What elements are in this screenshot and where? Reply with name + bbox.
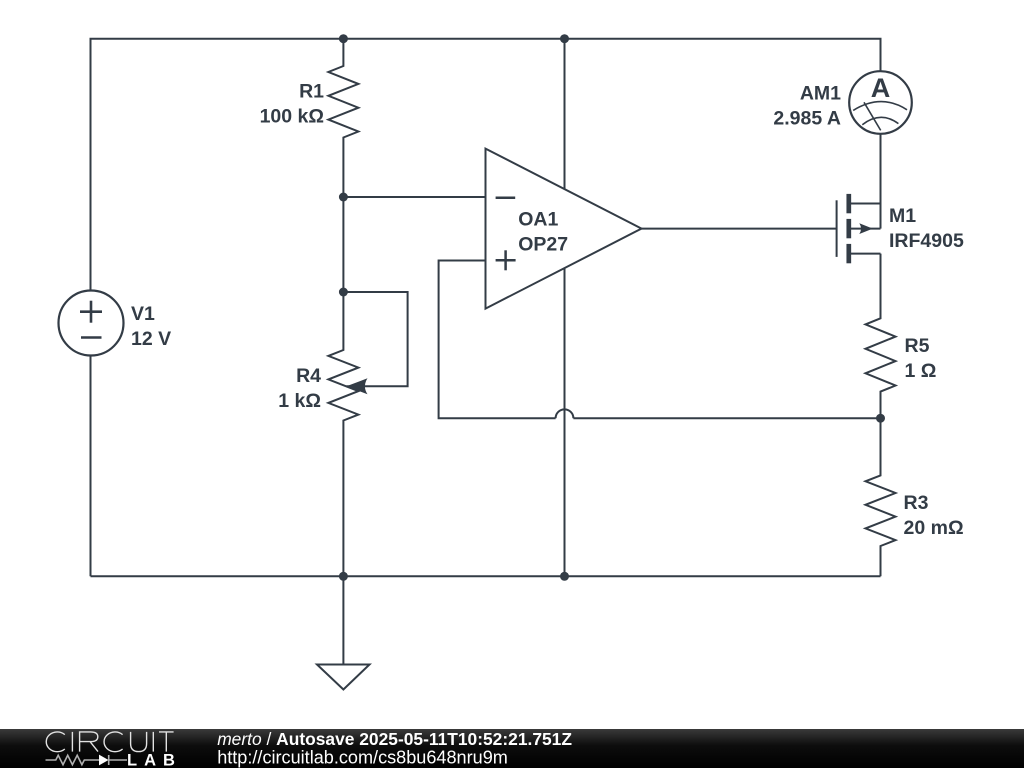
svg-text:AM1: AM1 (800, 83, 841, 105)
svg-text:LAB: LAB (127, 752, 182, 768)
svg-text:20 mΩ: 20 mΩ (904, 517, 964, 539)
node dot bottom rail (560, 572, 569, 581)
ammeter AM1 (849, 71, 912, 134)
ground (342, 576, 344, 664)
potentiometer R4 (328, 292, 358, 576)
svg-text:M1: M1 (889, 205, 916, 227)
svg-text:http://circuitlab.com/cs8bu648: http://circuitlab.com/cs8bu648nru9m (217, 748, 508, 768)
wire ammeter to mosfet source (880, 134, 882, 229)
node dot top rail (560, 34, 569, 43)
wire hop over supply rail (556, 409, 574, 418)
svg-text:R3: R3 (904, 492, 929, 514)
svg-text:R1: R1 (299, 80, 324, 102)
svg-text:12 V: 12 V (131, 328, 171, 350)
svg-text:R4: R4 (296, 365, 321, 387)
svg-text:A: A (871, 73, 891, 103)
wire R1 to R4 (342, 197, 344, 292)
node dot bottom R4 (339, 572, 348, 581)
wire + input feedback (439, 261, 556, 419)
voltage source V1 (59, 291, 124, 356)
node dot top R1 (339, 34, 348, 43)
resistor R5 (866, 254, 896, 419)
CircuitLab logo glyph (46, 755, 128, 765)
wire opamp output (642, 228, 837, 230)
svg-text:100 kΩ: 100 kΩ (260, 106, 324, 128)
transistor M1 stubs (849, 203, 881, 205)
transistor M1 channel bars (846, 194, 851, 263)
resistor R1 (328, 39, 358, 197)
node dot sense (876, 414, 885, 423)
arrow M1 body (859, 223, 873, 234)
op-amp OA1 (486, 149, 642, 309)
wire bottom rail (91, 575, 881, 577)
svg-text:OP27: OP27 (518, 234, 568, 256)
svg-text:1 kΩ: 1 kΩ (278, 390, 321, 412)
wire minus input (343, 196, 485, 198)
svg-text:2.985 A: 2.985 A (773, 108, 841, 130)
svg-text:IRF4905: IRF4905 (889, 230, 964, 252)
svg-text:1 Ω: 1 Ω (905, 360, 937, 382)
node dot R4 top (339, 288, 348, 297)
wire top rail (91, 39, 881, 577)
resistor R3 (866, 418, 896, 576)
arrow R4 wiper (346, 378, 367, 394)
wire feedback to sense node (573, 417, 880, 419)
transistor M1 gate bar (836, 200, 838, 257)
CircuitLab logo CIRCUIT (46, 732, 173, 752)
svg-text:V1: V1 (131, 303, 155, 325)
wire opamp supply rail (vertical mid) (564, 39, 566, 577)
wire R4 wiper loop (343, 292, 407, 386)
svg-text:merto / Autosave 2025-05-11T10: merto / Autosave 2025-05-11T10:52:21.751… (217, 729, 572, 749)
svg-text:OA1: OA1 (518, 209, 558, 231)
svg-text:R5: R5 (905, 335, 930, 357)
node dot minus input (339, 193, 348, 202)
